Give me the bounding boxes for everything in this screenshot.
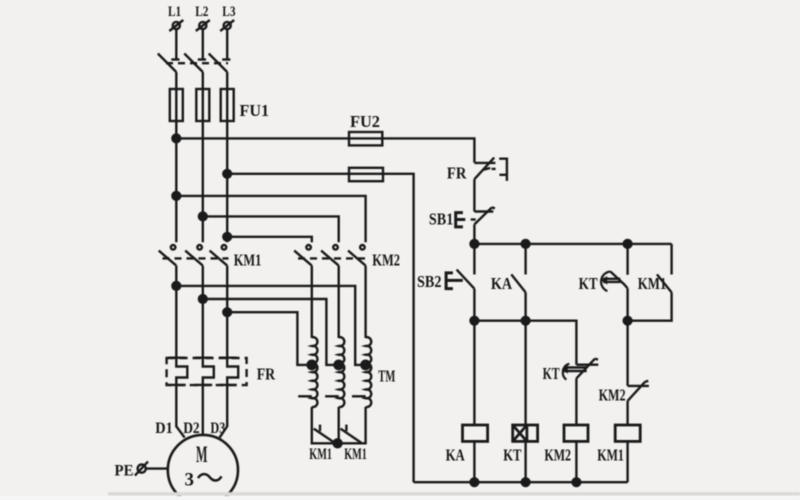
wire FR to motor phase 3 — [220, 385, 228, 438]
contactor KM1 main pole 2 — [185, 245, 203, 266]
control bottom rail — [414, 481, 628, 483]
wire dot to KM2 NC contact — [626, 321, 628, 386]
bottom caption smudge — [0, 492, 800, 500]
thermal relay FR dashed box — [167, 358, 247, 385]
svg-text:SB2: SB2 — [417, 272, 441, 291]
wire rail to KA contact — [524, 244, 526, 275]
junction dot L3 control tap — [223, 170, 231, 178]
wire L2 below KM1 — [202, 266, 204, 358]
relay FR NC contact — [474, 158, 507, 181]
contactor KM1 main pole 1 — [159, 245, 177, 266]
coil KA — [463, 425, 488, 441]
wire L2 to TM coil 2 tap — [203, 299, 339, 365]
disconnect switch QS pole 1 — [158, 54, 180, 73]
time relay KT delayed contact upper — [601, 272, 628, 292]
svg-text:PE: PE — [115, 463, 134, 480]
svg-text:KM2: KM2 — [372, 250, 400, 269]
fuse FU2 lower — [349, 168, 383, 181]
wire KA contact to lower rail — [524, 292, 526, 320]
wire rail to SB2 — [473, 244, 475, 275]
svg-text:FU2: FU2 — [350, 112, 380, 131]
contactor KM2 main pole 1 — [294, 245, 312, 266]
contactor KM1 star contact 2 — [341, 425, 362, 443]
svg-text:KA: KA — [491, 274, 513, 293]
junction dot bottom rail KT — [522, 478, 530, 486]
svg-text:KM2: KM2 — [544, 445, 571, 464]
svg-text:TM: TM — [378, 367, 395, 386]
wire switch to FU1 pole 3 — [226, 72, 228, 90]
svg-text:L3: L3 — [222, 4, 235, 20]
junction dot rail at KA — [522, 240, 530, 248]
junction dot TM tap 1 — [308, 361, 316, 369]
terminal L1 — [169, 20, 183, 31]
wire L1 below KM1 — [175, 266, 177, 358]
wire KA coil to bottom rail — [473, 441, 475, 482]
svg-text:KM2: KM2 — [599, 386, 626, 405]
FR heater element 3 — [219, 358, 238, 385]
wire L1 to TM coil 3 tap — [176, 286, 365, 365]
wire L3 terminal to switch — [226, 29, 228, 59]
junction dot rail at SB2 — [471, 240, 479, 248]
motor tilde symbol — [198, 474, 222, 480]
contactor KM1 star contact 1 — [314, 425, 336, 444]
wire L3 to TM coil 1 tap — [227, 312, 312, 365]
wire L3 main vertical — [226, 121, 228, 242]
junction dot L1 control tap — [172, 135, 180, 143]
wire L1 to KM2 pole 3 — [176, 196, 365, 242]
wire KT coil to bottom rail — [524, 441, 526, 482]
KM1 linkage dashed line — [163, 257, 229, 259]
KM2 linkage dashed line — [298, 257, 366, 259]
wire SB2 to lower rail — [473, 289, 475, 321]
contactor KM2 main pole 3 — [348, 245, 366, 266]
wire TM coil 1 bottom — [312, 407, 335, 443]
wire KM2 pole 1 to TM coil 1 — [311, 266, 313, 338]
svg-text:KM1: KM1 — [638, 274, 667, 293]
control lower rail — [474, 321, 576, 365]
coil KM2 — [564, 425, 588, 441]
wire control feed 2 — [227, 174, 413, 482]
junction dot bottom rail KA — [471, 478, 479, 486]
coil KM1 — [615, 425, 640, 441]
coil KT — [513, 425, 538, 441]
junction dot L3 to TM tap — [223, 308, 231, 316]
junction dot TM tap 3 — [361, 361, 369, 369]
junction dot lower rail SB2 — [471, 317, 479, 325]
wire L3 to KM2 pole 1 — [227, 237, 312, 242]
wire rail to KM1 contact — [670, 244, 672, 275]
wire L3 below KM1 — [226, 266, 228, 358]
control rail top — [474, 243, 671, 245]
junction dot L2 to KM2 — [199, 213, 207, 221]
svg-text:L1: L1 — [168, 4, 181, 20]
svg-text:3: 3 — [185, 470, 195, 491]
contactor KM1 main pole 3 — [210, 245, 228, 266]
disconnect switch QS pole 2 — [184, 54, 206, 73]
junction dot bottom rail KM2 — [573, 478, 581, 486]
wire rail to KT contact — [626, 244, 628, 275]
svg-text:KM1: KM1 — [309, 446, 332, 463]
svg-text:KT: KT — [503, 445, 522, 464]
junction dot lower rail KT branch — [624, 317, 632, 325]
wire KM2 pole 3 to TM coil 3 — [364, 266, 366, 338]
svg-text:KT: KT — [543, 364, 560, 383]
wire L1 terminal to switch — [175, 29, 177, 59]
wire FR contact to SB1 — [473, 179, 475, 211]
wire KM2 coil to bottom rail — [575, 441, 577, 482]
wire L2 to KM2 pole 2 — [203, 216, 339, 242]
fuse FU1 pole 2 — [196, 89, 209, 121]
terminal L2 — [196, 20, 210, 31]
svg-text:M: M — [196, 442, 208, 467]
svg-text:KM1: KM1 — [234, 250, 262, 269]
wire L2 main vertical — [202, 121, 204, 242]
svg-text:SB1: SB1 — [429, 210, 453, 229]
wire lower rail to KT coil — [524, 321, 526, 425]
junction dot L1 to TM tap — [172, 282, 180, 290]
relay contact KM1 NO — [657, 274, 672, 292]
wire KT lower contact to KM2 coil — [575, 378, 577, 425]
wire KM2 pole 2 to TM coil 2 — [338, 266, 340, 338]
terminal L3 — [220, 20, 234, 31]
autotransformer TM coil 2 — [325, 337, 344, 407]
wire switch to FU1 pole 1 — [175, 72, 177, 90]
junction dot TM tap 2 — [335, 361, 343, 369]
wire KT contact to dot — [626, 288, 628, 320]
time relay KT delayed contact lower — [562, 359, 599, 380]
svg-text:D1: D1 — [155, 420, 173, 437]
wire L2 terminal to switch — [202, 29, 204, 59]
disconnect switch QS pole 3 — [209, 54, 231, 73]
relay contact KA NO — [511, 274, 525, 292]
wire L1 main vertical — [175, 121, 177, 242]
motor M circle — [168, 435, 238, 500]
svg-text:FU1: FU1 — [240, 101, 270, 120]
svg-text:FR: FR — [447, 164, 467, 183]
svg-text:KM1: KM1 — [344, 446, 367, 463]
FR heater element 1 — [168, 358, 187, 385]
svg-text:KT: KT — [579, 274, 599, 293]
svg-text:L2: L2 — [195, 4, 208, 20]
junction dot lower rail KA — [522, 317, 530, 325]
contactor KM2 NC interlock contact — [628, 381, 649, 401]
fuse FU1 pole 1 — [170, 89, 183, 121]
autotransformer TM coil 1 — [298, 337, 317, 407]
terminal PE — [135, 462, 148, 476]
button SB2 NO — [446, 270, 474, 289]
wire FR to motor phase 2 — [202, 385, 204, 435]
wire lower rail to KA coil — [473, 321, 475, 425]
switch QS linkage dashed line — [166, 62, 228, 64]
wire FR to motor phase 1 — [176, 385, 184, 438]
autotransformer TM coil 3 — [352, 337, 371, 407]
wire KM1 contact to dot — [628, 292, 672, 320]
svg-text:KM1: KM1 — [597, 445, 624, 464]
wire TM coil 3 bottom — [340, 407, 366, 443]
wire control feed 1 — [176, 138, 474, 162]
junction dot rail at KT — [624, 240, 632, 248]
button SB1 NC — [456, 207, 495, 227]
wire PE to motor — [146, 467, 168, 469]
wire KM2 NC to KM1 coil — [626, 401, 628, 425]
junction dot star point — [334, 439, 342, 447]
wire SB1 to rail — [473, 224, 475, 244]
FR heater element 2 — [195, 358, 214, 385]
wire TM coil 2 bottom — [338, 407, 340, 443]
contactor KM2 main pole 2 — [321, 245, 339, 266]
junction dot L2 to TM tap — [199, 295, 207, 303]
junction dot L3 to KM2 — [223, 233, 231, 241]
wire switch to FU1 pole 2 — [202, 72, 204, 90]
fuse FU1 pole 3 — [221, 89, 234, 121]
wire KM1 coil to bottom rail — [626, 441, 628, 482]
junction dot L1 to KM2 — [172, 192, 180, 200]
fuse FU2 upper — [349, 132, 382, 145]
svg-text:FR: FR — [257, 365, 276, 384]
svg-text:D3: D3 — [210, 420, 225, 437]
svg-text:KA: KA — [446, 445, 466, 464]
